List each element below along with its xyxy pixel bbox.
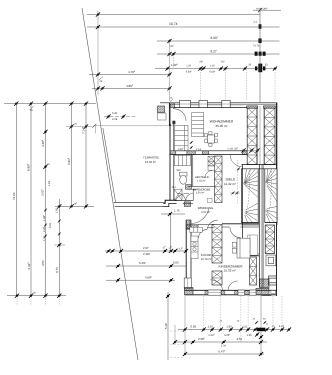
wc toilet <box>180 172 188 184</box>
west wall mid <box>170 124 174 201</box>
svg-text:9.76: 9.76 <box>55 267 59 273</box>
svg-text:2.29: 2.29 <box>112 118 118 121</box>
south wall white notch right <box>271 291 276 294</box>
living room south wall <box>169 151 247 155</box>
svg-text:1.76: 1.76 <box>174 208 180 212</box>
bottom dim line C y354 <box>185 353 264 355</box>
svg-text:1.13: 1.13 <box>196 148 201 151</box>
svg-text:15.32 m²: 15.32 m² <box>224 269 236 273</box>
stair mid wall <box>258 165 260 288</box>
living room west door arc <box>174 109 186 121</box>
svg-text:KÜCHE: KÜCHE <box>201 253 211 257</box>
washer dryer in abstell <box>208 156 215 170</box>
svg-text:5.48: 5.48 <box>164 323 168 329</box>
dim line L6 4.70 <box>89 74 170 76</box>
left dim horizontal H3 bottom <box>7 295 66 297</box>
top exterior wall <box>160 103 277 108</box>
left dim horizontal H1 <box>4 103 96 105</box>
bottom dim line B y342 <box>175 341 267 343</box>
top dim line L5 small dims <box>155 68 277 70</box>
svg-text:11.42 m²: 11.42 m² <box>224 182 236 186</box>
diele east wall <box>242 165 244 255</box>
wardrobe furniture stack <box>175 125 189 150</box>
svg-text:±0.00 OKF: ±0.00 OKF <box>256 7 268 10</box>
central hatched wall lower segment <box>212 225 222 264</box>
svg-text:1.51: 1.51 <box>242 325 248 328</box>
shaft gap verticals <box>256 108 258 164</box>
south window SW1 <box>208 290 221 295</box>
hatched post below stairs <box>250 257 257 285</box>
south window SW3 <box>250 290 257 295</box>
svg-text:5.40: 5.40 <box>112 112 118 115</box>
bedroom north wall <box>222 223 259 225</box>
top dim line L3 with label 8.93 <box>157 40 280 42</box>
svg-text:2.26: 2.26 <box>43 226 46 232</box>
bottom main vertical x261 with tick cluster <box>260 295 262 356</box>
stair hall bottom wall <box>242 222 260 224</box>
svg-text:2.97: 2.97 <box>143 246 149 250</box>
entrance recess wall <box>163 200 176 206</box>
hatched wall right of bedroom <box>265 225 274 254</box>
terrace side wall double line <box>103 128 116 203</box>
svg-text:10.78 m²: 10.78 m² <box>201 258 212 261</box>
closet in wc <box>175 155 191 165</box>
corner pier hatched <box>169 103 174 108</box>
bottom left extension vertical with 5.48 <box>167 292 169 360</box>
entrance recess dim 1.76 <box>161 213 185 215</box>
extension line verticals top <box>97 11 99 95</box>
kitchen window <box>184 278 191 289</box>
svg-text:WINDFANG: WINDFANG <box>198 206 214 210</box>
dim line y280 label 4.89 <box>106 279 175 281</box>
svg-text:1.26: 1.26 <box>186 65 191 68</box>
south wall masonry posts <box>205 291 208 295</box>
top dim line L1 <box>87 14 260 16</box>
bottom right wall chunk <box>260 279 270 288</box>
shaft box upper <box>266 255 276 266</box>
svg-text:WC: WC <box>177 169 181 172</box>
dining table and chairs <box>205 132 218 146</box>
svg-text:WOHNZIMMER: WOHNZIMMER <box>210 119 234 123</box>
window W2 <box>199 100 207 107</box>
small dim line y116 with labels <box>104 116 136 118</box>
dim line L7 4.80 <box>92 87 170 89</box>
svg-text:35.35 m²: 35.35 m² <box>215 124 227 128</box>
svg-text:2.115: 2.115 <box>143 252 150 256</box>
shower <box>174 189 182 200</box>
wc door arc <box>178 193 186 201</box>
svg-text:5.00: 5.00 <box>173 261 179 265</box>
south window SW2 <box>238 290 245 295</box>
shaft box lower <box>268 276 276 285</box>
terrace door arc right <box>228 281 238 291</box>
svg-text:1.93: 1.93 <box>226 325 232 328</box>
svg-text:13.36 m²: 13.36 m² <box>145 160 156 164</box>
south wall hatched posts <box>170 151 176 155</box>
svg-text:2.51: 2.51 <box>237 337 243 341</box>
neighbour wall stub hatched <box>158 106 165 113</box>
svg-text:4.51: 4.51 <box>41 260 45 266</box>
windfang big door arc <box>191 208 209 223</box>
svg-text:5.68: 5.68 <box>191 324 197 328</box>
south wall step right <box>262 294 272 296</box>
kitchen west wall hatched top <box>186 220 191 229</box>
windfang south wall with hatch <box>186 225 198 229</box>
svg-text:1.13: 1.13 <box>279 325 285 328</box>
dim line y266 labels 5.49 5.00 <box>106 265 186 267</box>
left dim horizontal H2 <box>55 205 94 207</box>
svg-text:1.50: 1.50 <box>221 345 227 348</box>
svg-text:1.50 m²: 1.50 m² <box>196 191 205 194</box>
dim ticks at column A 1.43 <box>241 148 245 152</box>
door posts hatched at wc <box>186 185 192 190</box>
svg-text:1.26: 1.26 <box>210 65 215 68</box>
tick cluster mid left <box>69 124 73 128</box>
bottom dim line A y329.5 <box>178 329 290 331</box>
svg-text:1.63: 1.63 <box>48 180 51 186</box>
svg-text:3.00 m²: 3.00 m² <box>201 211 210 214</box>
terrace south retaining wall <box>114 203 166 207</box>
east exterior wall <box>276 103 278 296</box>
bedroom bed <box>237 238 250 258</box>
svg-text:DU.: DU. <box>172 186 177 189</box>
top wall chimney caps <box>247 106 258 108</box>
svg-text:1.03: 1.03 <box>208 325 214 328</box>
top dim line L0 <box>253 9 281 11</box>
stair hall top walls <box>242 164 278 166</box>
stair right flight <box>265 169 277 223</box>
bottom extension verticals <box>184 296 186 355</box>
svg-text:72.04: 72.04 <box>12 192 16 200</box>
left vertical dim lines <box>15 104 17 296</box>
entrance door leaf <box>184 202 190 207</box>
svg-text:10.74: 10.74 <box>169 22 178 26</box>
svg-text:74 74: 74 74 <box>253 45 260 48</box>
entrance door arc <box>176 193 190 200</box>
svg-text:DIELE: DIELE <box>226 177 236 181</box>
dot on x59 vertical <box>57 243 61 247</box>
kitchen counter west <box>191 236 198 259</box>
terrace north line <box>94 125 180 127</box>
central hatched wall upper segment <box>215 156 223 203</box>
west exterior wall upper <box>169 103 173 126</box>
dim line y251 with labels 2.97 2.115 <box>105 250 186 252</box>
south exterior wall <box>185 290 277 295</box>
stair left flight <box>242 169 259 223</box>
svg-text:1.63 m²: 1.63 m² <box>197 179 206 182</box>
central hatched wall bottom segment <box>212 271 222 285</box>
abstell south wall <box>188 186 215 188</box>
bedroom door arc <box>230 227 241 238</box>
sideboard furniture <box>192 113 204 137</box>
svg-text:TERRASSE: TERRASSE <box>143 156 159 160</box>
neighbour wall stub <box>158 113 167 120</box>
wc south wall <box>175 200 193 202</box>
wc abstell divider wall <box>190 155 192 187</box>
svg-text:2.2: 2.2 <box>254 21 258 24</box>
top dim line L2 with label 10.74 <box>87 26 280 28</box>
windfang-kitchen door arc <box>199 229 208 238</box>
terrace door arc left <box>210 280 223 291</box>
bed pillows <box>232 242 236 253</box>
property boundary diagonal line <box>82 8 138 360</box>
south wall corner piece <box>185 288 194 295</box>
top dim line L4 with label 8.27 <box>157 53 280 55</box>
kitchen counter top <box>190 227 203 232</box>
window W3 <box>222 100 230 107</box>
top wall masonry light lines <box>191 105 200 107</box>
garderobe door arc <box>186 193 194 201</box>
window W1 <box>180 100 191 107</box>
svg-text:5.05: 5.05 <box>49 222 52 228</box>
svg-text:8.27: 8.27 <box>211 49 217 53</box>
shaft column B hatched <box>264 108 275 164</box>
kitchen west wall <box>186 220 191 288</box>
shaft column A hatched <box>247 108 257 165</box>
svg-text:1.26: 1.26 <box>246 334 252 337</box>
